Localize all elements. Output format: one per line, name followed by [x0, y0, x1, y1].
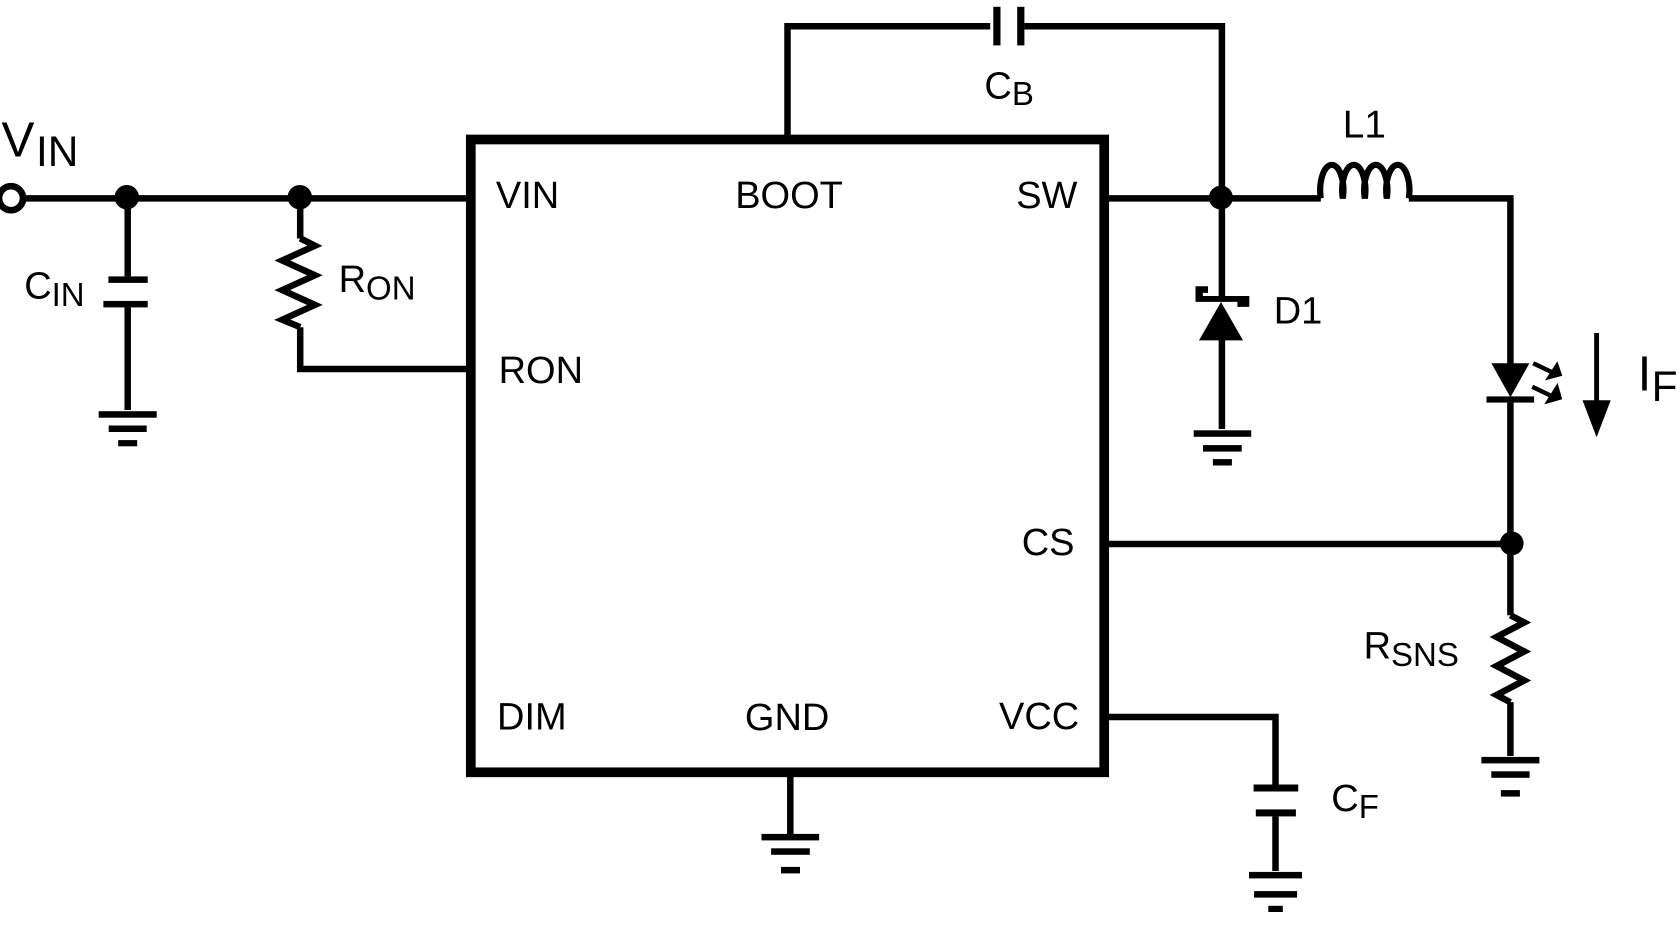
svg-text:V: V [2, 112, 35, 167]
resistor RSNS [1497, 544, 1525, 756]
node B (RON junction dot) [288, 185, 312, 209]
wire SW pin to L1 [1104, 195, 1321, 202]
capacitor CF [1254, 785, 1299, 872]
svg-text:BOOT: BOOT [735, 175, 843, 217]
ground (RSNS) [1481, 757, 1539, 797]
wire GND pin to ground [787, 772, 794, 834]
svg-text:D1: D1 [1274, 291, 1323, 333]
svg-text:RON: RON [499, 350, 583, 392]
diode D1 (Schottky) [1196, 286, 1250, 340]
terminal VIN (open circle) [0, 186, 23, 210]
svg-text:F: F [1652, 363, 1678, 410]
ground (CF) [1249, 872, 1302, 912]
resistor RON [282, 198, 315, 369]
wire VIN input to IC [24, 195, 469, 202]
wire LED to CS node [1507, 403, 1514, 544]
wire D1 to ground [1219, 340, 1226, 429]
capacitor CB [993, 7, 1024, 46]
svg-text:RON: RON [339, 259, 416, 306]
svg-text:CF: CF [1331, 778, 1379, 825]
wire CB to SW node [1024, 26, 1222, 198]
current arrow IF [1583, 333, 1611, 437]
ground (GND pin) [762, 834, 820, 874]
LED [1487, 361, 1563, 404]
op-amp U1 (IC body) [471, 140, 1104, 773]
svg-text:DIM: DIM [497, 697, 567, 739]
wire L1 to LED [1409, 198, 1511, 364]
svg-text:I: I [1638, 347, 1652, 402]
svg-text:L1: L1 [1343, 104, 1386, 147]
svg-text:RSNS: RSNS [1364, 626, 1459, 673]
node D (CS junction dot) [1500, 532, 1524, 556]
wire RON to RON pin [297, 366, 468, 373]
svg-text:VIN: VIN [496, 175, 559, 217]
wire SW node to D1 [1219, 198, 1226, 296]
node C (SW junction dot) [1209, 186, 1233, 210]
svg-text:IN: IN [36, 128, 78, 175]
wire BOOT pin up to CB [788, 26, 991, 139]
node A (CIN junction dot) [115, 185, 139, 209]
svg-text:CS: CS [1022, 522, 1075, 564]
svg-text:VCC: VCC [999, 696, 1079, 738]
inductor L1 [1320, 165, 1409, 199]
ground (D1) [1194, 430, 1252, 465]
svg-text:GND: GND [745, 697, 829, 739]
capacitor CIN [103, 198, 147, 410]
wire VCC pin to CF [1104, 717, 1276, 785]
ground (CIN) [99, 411, 157, 446]
svg-text:CB: CB [984, 65, 1033, 112]
wire CS pin to node [1104, 541, 1511, 548]
svg-text:SW: SW [1016, 175, 1077, 217]
svg-text:CIN: CIN [24, 265, 84, 313]
